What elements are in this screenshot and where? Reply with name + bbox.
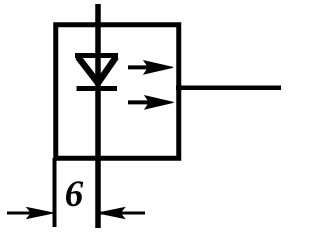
enclosure box (LED housing outline)	[56, 25, 179, 159]
light emission arrow upper head	[144, 61, 173, 74]
dimension arrow right head	[98, 208, 125, 219]
light emission arrow lower head	[145, 96, 174, 109]
dimension extension line left	[53, 158, 57, 227]
svg-text:6: 6	[65, 174, 84, 215]
light emission arrow lower shaft	[128, 100, 158, 104]
diode VD1 triangle left side	[78, 57, 98, 83]
dimension line left segment	[7, 212, 48, 215]
dimension arrow left head	[27, 208, 54, 219]
dimension line right segment	[100, 212, 145, 215]
light emission arrow upper shaft	[128, 65, 158, 69]
wire: vertical diode lead through box	[95, 4, 101, 228]
diode VD1 triangle right side	[98, 57, 116, 83]
diode VD1 cathode bar	[77, 86, 118, 91]
diode VD1 anode bar	[75, 53, 118, 58]
wire: output lead to the right	[176, 85, 281, 90]
